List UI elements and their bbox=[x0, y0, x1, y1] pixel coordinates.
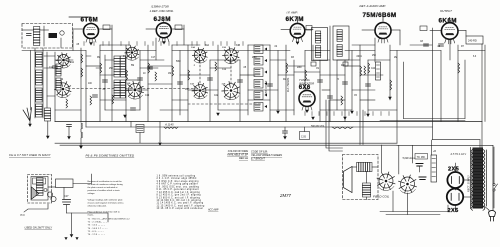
svg-text:2M77: 2M77 bbox=[279, 193, 292, 198]
wire: vertical runs, top band bbox=[46, 52, 48, 108]
grid cap leads bbox=[69, 17, 450, 22]
switch contact coil 1 bbox=[254, 45, 263, 54]
field coil bbox=[363, 183, 371, 197]
coil L3b ant secondary bbox=[56, 78, 61, 90]
svg-text:Plug condenser tested line shi: Plug condenser tested line shift to bbox=[88, 211, 121, 214]
svg-text:ACC AMP: ACC AMP bbox=[207, 209, 219, 212]
wire: rail y=118.5 right bbox=[404, 118, 466, 120]
svg-text:6 11 .05 C.P. generator ali: 6 11 .05 C.P. generator alignment bbox=[157, 188, 200, 191]
capacitor C21 (boxed) bbox=[300, 132, 310, 140]
power plug bbox=[489, 210, 496, 221]
svg-text:C8: C8 bbox=[420, 41, 424, 43]
ground g2 bbox=[216, 113, 220, 116]
dashed enclosure: 2M77 dial-light unit bbox=[28, 175, 52, 204]
cathode ground V2 bbox=[162, 41, 166, 44]
svg-text:OUTPUT: OUTPUT bbox=[440, 9, 452, 13]
pilot lamp circles bbox=[47, 192, 52, 197]
svg-text:.5: .5 bbox=[337, 79, 340, 81]
wire: drop x=160 bus to ground bus bbox=[159, 122, 161, 143]
switch contact coil 2 bbox=[254, 57, 263, 66]
svg-text:.02: .02 bbox=[274, 46, 278, 48]
svg-text:provision of rectifier which a: provision of rectifier which a starts bbox=[88, 189, 120, 192]
IF T2 secondary bbox=[337, 45, 342, 57]
ground under C21b bbox=[283, 136, 287, 139]
ground g4 bbox=[350, 111, 354, 114]
IF transformer T1 (can) bbox=[312, 28, 328, 61]
texture ticks upper band bbox=[84, 42, 243, 46]
band-switch wafer S1A bbox=[192, 48, 207, 64]
capacitor C21b bbox=[283, 131, 288, 133]
svg-text:+B: +B bbox=[433, 151, 436, 153]
ground under choke CH bbox=[46, 136, 50, 139]
resistor R22 bbox=[364, 66, 366, 75]
capacitor C11 bbox=[366, 84, 371, 86]
svg-text:T4 : 14.8 1.7 - -: T4 : 14.8 1.7 - - - - bbox=[88, 228, 108, 230]
svg-text:32A: 32A bbox=[222, 46, 226, 49]
dial unit top detail bbox=[33, 178, 46, 184]
capacitor C27 stack bbox=[63, 200, 71, 205]
P6 dial lamp block on bus bbox=[131, 122, 144, 144]
svg-text:chassis and negative terminals: chassis and negative terminals unless bbox=[88, 201, 124, 204]
wire: heater lines to transformer bbox=[380, 211, 448, 213]
oscillator coil L6 bbox=[114, 56, 120, 77]
IF transformer T2 (can) bbox=[333, 26, 349, 60]
dial unit inner box bbox=[31, 177, 48, 201]
svg-text:10: 10 bbox=[143, 73, 146, 75]
coil L2b ant secondary bbox=[56, 64, 61, 76]
texture ticks lower mid band bbox=[305, 112, 389, 116]
svg-text:& 7 BRIGHT: & 7 BRIGHT bbox=[251, 158, 265, 161]
resistor R18 diode load bbox=[376, 62, 381, 80]
svg-text:12 15 1400 K.C. mod pad I.F.: 12 15 1400 K.C. mod pad I.F. aligning bbox=[157, 205, 205, 207]
coupling condenser boxes near tubes bbox=[103, 25, 110, 30]
svg-text:T2 : 2.1 M,A - -: T2 : 2.1 M,A - - - - bbox=[88, 221, 108, 224]
svg-text:1 6 .05M antenna coil coup: 1 6 .05M antenna coil coupling bbox=[157, 175, 196, 178]
resistor R21 bbox=[341, 96, 343, 105]
resistor R15 bbox=[81, 132, 83, 138]
speaker wiring bbox=[352, 167, 378, 200]
svg-text:TO. PRI.: TO. PRI. bbox=[417, 157, 426, 159]
tube V5 6K6M (output) bbox=[441, 20, 458, 44]
dial lamp cone bbox=[32, 187, 40, 199]
wire: rail y=66 segments (texture) bbox=[86, 65, 100, 67]
svg-text:6.3: 6.3 bbox=[473, 56, 477, 58]
wire: rail y=60 segments bbox=[55, 59, 73, 61]
svg-text:500,000 VOL.: 500,000 VOL. bbox=[311, 126, 326, 128]
ground g7 bbox=[343, 117, 347, 120]
svg-text:8 12 455 K.C. gen 2nd I.F.: 8 12 455 K.C. gen 2nd I.F. aligning bbox=[157, 195, 202, 197]
socket: osc trimmer bbox=[125, 46, 139, 61]
svg-text:C12: C12 bbox=[222, 69, 227, 71]
wire: power section inner links bbox=[380, 120, 465, 122]
svg-text:CH.& C7 NOT USED IN MANY: CH.& C7 NOT USED IN MANY bbox=[9, 153, 52, 157]
svg-text:/1.5 TO 2 1/2 V: /1.5 TO 2 1/2 V bbox=[450, 154, 467, 156]
svg-text:T3 : 12.6 - - -: T3 : 12.6 - - - - - bbox=[88, 225, 106, 227]
svg-text:C17: C17 bbox=[151, 57, 156, 59]
svg-text:C19: C19 bbox=[145, 95, 150, 97]
wire: output lead pair down bbox=[360, 110, 363, 145]
svg-text:6X6: 6X6 bbox=[299, 85, 311, 91]
svg-text:240 RD: 240 RD bbox=[468, 39, 477, 43]
capacitor C4 bbox=[178, 82, 183, 84]
svg-text:.05: .05 bbox=[243, 67, 247, 69]
resistor R3 bbox=[100, 63, 102, 73]
svg-text:C27: C27 bbox=[64, 195, 69, 198]
svg-text:/1398A/-2T3/8: /1398A/-2T3/8 bbox=[150, 5, 169, 9]
resistor R1 bbox=[81, 54, 83, 63]
wire: left column verticals bbox=[34, 48, 36, 118]
wire: double ground bus y=143.2/145 bbox=[55, 142, 397, 144]
wire: dashed gang linkage y=90 bbox=[68, 88, 196, 90]
speaker cone bbox=[344, 167, 353, 193]
band-switch wafer S1D bbox=[222, 82, 240, 100]
resistor R9 bbox=[305, 70, 307, 80]
wire: rail y=45 segments bbox=[100, 44, 130, 46]
svg-text:R11: R11 bbox=[70, 62, 75, 64]
socket: tuning gang trimmer 3-4A bbox=[56, 53, 71, 68]
svg-text:C9: C9 bbox=[316, 68, 320, 70]
svg-text:32B: 32B bbox=[222, 84, 226, 86]
svg-text:75M/6B6M: 75M/6B6M bbox=[363, 12, 397, 19]
capacitor C8 bbox=[268, 84, 273, 86]
resistor R24 bbox=[215, 62, 217, 71]
resistor R20 bleeder (power) bbox=[431, 155, 437, 182]
switch contact coil 5 bbox=[254, 91, 263, 100]
ground g1 bbox=[123, 115, 127, 118]
svg-text:C24: C24 bbox=[371, 68, 376, 70]
svg-text:.25: .25 bbox=[102, 89, 106, 91]
capacitor C18 bbox=[148, 67, 153, 69]
svg-text:R3: R3 bbox=[291, 57, 295, 59]
svg-text:set drain of condenser voltage: set drain of condenser voltage during bbox=[88, 183, 124, 186]
wire: bus y=127 bbox=[86, 126, 433, 128]
dashed enclosure: antenna coil unit (top-left) bbox=[22, 24, 73, 49]
svg-text:5M: 5M bbox=[131, 65, 134, 67]
svg-text:50M: 50M bbox=[176, 61, 181, 63]
wire: rail y=80/68 extra segments bbox=[126, 79, 140, 81]
wire: vertical from bus down w/resistors x=81 bbox=[80, 48, 82, 122]
ground g8 bbox=[366, 114, 370, 117]
svg-text:2X5: 2X5 bbox=[448, 208, 459, 214]
svg-text:11 14 1400 K.C. osc pad I.F.: 11 14 1400 K.C. osc pad I.F. aligning bbox=[157, 203, 204, 205]
svg-text:.1: .1 bbox=[193, 65, 196, 67]
coil L4 band coil bbox=[36, 88, 42, 102]
resistor R8 bbox=[286, 63, 288, 73]
svg-text:6K7M: 6K7M bbox=[286, 16, 304, 23]
parts inside antenna dashed box bbox=[49, 33, 58, 38]
capacitor C1 bbox=[53, 66, 58, 68]
resistor R6 bbox=[172, 66, 174, 76]
coil L3 RF secondary bbox=[36, 70, 42, 85]
extra left-side segments bbox=[44, 56, 100, 96]
svg-text:USED ON 2M77 ONLY: USED ON 2M77 ONLY bbox=[25, 226, 53, 230]
IF T2 primary bbox=[337, 30, 342, 42]
capacitor C3 bbox=[138, 78, 143, 80]
ground g6 bbox=[311, 117, 315, 120]
svg-text:2X5: 2X5 bbox=[448, 166, 459, 172]
wire: power box boundary bbox=[397, 145, 493, 210]
tube V3 6K7M (IF amp) bbox=[290, 21, 305, 43]
capacitor C17 bbox=[93, 95, 98, 97]
svg-text:P6 & P6 SOMETIMES OMITTED: P6 & P6 SOMETIMES OMITTED bbox=[86, 154, 135, 158]
output transformer T3 bbox=[357, 163, 373, 172]
svg-text:Because of rectification in ci: Because of rectification in circuit the bbox=[88, 180, 123, 183]
resistor R23 bbox=[112, 95, 114, 104]
svg-text:otherwise indicated.: otherwise indicated. bbox=[88, 204, 107, 207]
capacitor C15 bbox=[328, 96, 333, 98]
svg-text:C22: C22 bbox=[214, 95, 219, 97]
antenna coil L1 (in shield) bbox=[34, 27, 40, 46]
svg-text:9 13 600 K.C. ant coil I.F.: 9 13 600 K.C. ant coil I.F. aligning bbox=[157, 196, 201, 199]
svg-text:FIELD COIL: FIELD COIL bbox=[373, 195, 390, 199]
tube V2 6J8M (converter) bbox=[156, 20, 171, 42]
resistor R26 bbox=[66, 99, 68, 108]
capacitor C16 bbox=[131, 108, 136, 110]
resistor R13 bbox=[458, 63, 460, 73]
svg-text:T6 : 17.8 - - -: T6 : 17.8 - - - - - bbox=[88, 234, 106, 236]
tube V6 6X6 (tuning indicator) bbox=[299, 88, 315, 111]
svg-text:2 6 .1 C.P. trimmer align: 2 6 .1 C.P. trimmer align 455KC bbox=[157, 177, 197, 180]
svg-text:C4: C4 bbox=[58, 56, 62, 58]
svg-text:5,000 ohms: 5,000 ohms bbox=[403, 157, 416, 160]
capacitor C23 electrolytic bbox=[419, 177, 426, 180]
capacitor C5 bbox=[208, 78, 213, 80]
socket: tuning gang trimmer 3-4B bbox=[55, 81, 71, 98]
wire: rail y=75 segments bbox=[100, 74, 118, 76]
svg-text:34B: 34B bbox=[236, 45, 241, 47]
svg-text:13 16 .05 C.P. output with c: 13 16 .05 C.P. output with condenser bbox=[157, 207, 204, 210]
ground under R15 bbox=[79, 146, 83, 149]
resistor R4 bbox=[126, 70, 128, 80]
svg-text:the plate current as indicated: the plate current as indicated at bbox=[88, 186, 118, 189]
coil L5 band coil bbox=[36, 104, 42, 117]
svg-text:.02: .02 bbox=[60, 79, 64, 81]
svg-text:2M: 2M bbox=[394, 57, 397, 59]
tube V8 2X5 rectifier (lower) bbox=[447, 189, 463, 205]
svg-text:C.05: C.05 bbox=[301, 136, 307, 138]
cathode ground V3 bbox=[296, 42, 300, 45]
capacitor C9 bbox=[318, 80, 323, 82]
IF T1 primary bbox=[316, 31, 321, 43]
tube V7 2X5 rectifier (upper) bbox=[447, 170, 463, 190]
antenna symbol bbox=[23, 108, 32, 126]
tube V1 6T6M (RF amp) bbox=[84, 21, 99, 43]
resistor R7 bbox=[188, 70, 190, 80]
svg-text:250: 250 bbox=[372, 55, 377, 57]
resistor R11 bbox=[368, 63, 370, 73]
svg-text:4 8 ANT C.P. tuning gang p: 4 8 ANT C.P. tuning gang padder bbox=[157, 183, 199, 186]
svg-text:R.F. TRANS.: R.F. TRANS. bbox=[286, 77, 290, 92]
svg-text:3 8 OSC C.P. inter-stage a: 3 8 OSC C.P. inter-stage aligning bbox=[157, 180, 200, 183]
capacitor C6 bbox=[238, 80, 243, 82]
svg-text:5 9 .0001 OSC sect. osc. p: 5 9 .0001 OSC sect. osc. padding bbox=[157, 185, 200, 188]
wire: 6X6 enclosure bbox=[294, 71, 320, 73]
dashed enclosure: speaker assembly bbox=[343, 155, 379, 200]
svg-text:30A: 30A bbox=[205, 44, 210, 47]
coil L2 RF primary bbox=[36, 52, 42, 67]
svg-text:T5 : 6.3 - - -: T5 : 6.3 - - - - - bbox=[88, 231, 104, 233]
svg-text:Voltage readings with voltmete: Voltage readings with voltmeter plate bbox=[88, 198, 124, 201]
switch contact coil 6 bbox=[254, 103, 263, 112]
tube V4 75M/6B6M (det-AF) bbox=[375, 20, 391, 43]
wire: top grid rail segments y=50.5 bbox=[22, 50, 86, 52]
resistor R14 bbox=[81, 123, 83, 129]
svg-text:30A: 30A bbox=[191, 46, 195, 49]
svg-text:INDICATOR: INDICATOR bbox=[299, 81, 314, 85]
resistor R10 bbox=[360, 66, 362, 76]
wire: speaker lead pair down bbox=[326, 100, 343, 151]
ground: dial unit bbox=[70, 234, 74, 237]
volume control R17 bbox=[332, 127, 353, 129]
capacitor C2 bbox=[103, 80, 108, 82]
choke CH bbox=[45, 108, 51, 121]
wire: transformer right lead to plug bbox=[484, 206, 489, 212]
svg-text:voltage.: voltage. bbox=[88, 192, 96, 195]
resistor block right of dial unit bbox=[56, 179, 74, 188]
wire stub: x81 lower bbox=[80, 129, 82, 132]
wire: dashed linkage verticals bbox=[199, 61, 201, 84]
ground g5 bbox=[388, 97, 392, 100]
oscillator coil L7b bbox=[120, 80, 125, 98]
svg-text:I.F. AMP.: I.F. AMP. bbox=[287, 11, 298, 15]
svg-text:1.DET.-OSC.MOD.: 1.DET.-OSC.MOD. bbox=[150, 9, 175, 13]
svg-text:1M: 1M bbox=[168, 73, 171, 75]
switch on mains lead bbox=[493, 183, 495, 185]
svg-text:6T6M: 6T6M bbox=[81, 17, 99, 24]
resistor R27 bbox=[155, 72, 157, 81]
capacitor C12 bbox=[424, 44, 429, 46]
resistor R12 bbox=[390, 80, 392, 90]
dial unit coil bbox=[37, 178, 44, 196]
stage coupling wires at tube level bbox=[73, 25, 466, 51]
svg-text:20M: 20M bbox=[297, 67, 302, 69]
svg-text:30A: 30A bbox=[190, 83, 194, 86]
cathode ground V1 bbox=[89, 42, 93, 45]
trimmer rects on IF cans bbox=[311, 62, 316, 66]
band-switch wafer S1B bbox=[223, 47, 239, 64]
ground under C7 bbox=[67, 136, 71, 139]
capacitor C14 bbox=[439, 44, 444, 46]
resistor R16 on bus (A 1145) bbox=[164, 127, 178, 129]
wire: B+ rail y=121.5 bbox=[55, 121, 482, 123]
svg-text:.05: .05 bbox=[76, 44, 80, 46]
svg-text:6J8M: 6J8M bbox=[154, 16, 171, 23]
resistor R2 bbox=[81, 68, 83, 77]
band-switch wafer S1C bbox=[192, 83, 208, 99]
switch contact coil 3 bbox=[254, 68, 263, 77]
wire: rail y=90 segments bbox=[126, 89, 148, 91]
switch contact coil 4 bbox=[254, 80, 263, 89]
wire: rail y=100 segments (texture) bbox=[100, 99, 126, 101]
wire: dashed band-switch linkage y=104 bbox=[188, 103, 262, 105]
capacitor C22 electrolytic bbox=[416, 164, 423, 167]
svg-text:7 12 455 K.C. pad 1st I.F.: 7 12 455 K.C. pad 1st I.F. aligning bbox=[157, 191, 201, 194]
svg-text:100: 100 bbox=[88, 83, 93, 85]
svg-text:.0001: .0001 bbox=[356, 56, 362, 58]
svg-text:P.O: P.O bbox=[21, 213, 25, 217]
ground arrow x160 bbox=[158, 143, 162, 146]
wire: rail y=110 segments bbox=[55, 109, 81, 111]
socket: speaker plug (bottom view) bbox=[377, 172, 395, 191]
svg-text:RED LE: RED LE bbox=[239, 157, 248, 160]
svg-text:10 14 600 K.C. RF coil I.F.: 10 14 600 K.C. RF coil I.F. aligning bbox=[157, 200, 202, 202]
svg-text:mains.: mains. bbox=[88, 215, 95, 217]
svg-text:R7: R7 bbox=[461, 46, 465, 48]
svg-text:A 1145: A 1145 bbox=[164, 122, 174, 126]
wire: mains lead right edge bbox=[493, 147, 495, 183]
socket: power socket (bottom view) bbox=[399, 175, 417, 194]
resistor R25 bbox=[90, 96, 92, 105]
capacitor C10 bbox=[343, 82, 348, 84]
ground V6 bbox=[305, 110, 309, 113]
svg-text:25M: 25M bbox=[252, 57, 257, 59]
svg-text:RECT. SUPPLY: RECT. SUPPLY bbox=[468, 175, 471, 192]
oscillator coil L7 bbox=[114, 80, 120, 98]
ground g3 bbox=[276, 111, 280, 114]
resistor R5 bbox=[148, 63, 150, 73]
oscillator coil L6b bbox=[120, 56, 125, 77]
svg-text:6K6M: 6K6M bbox=[439, 17, 457, 24]
dial unit wiring bbox=[24, 174, 108, 234]
svg-text:T1 : 850 O.L.-ANT GRID: T1 : 850 O.L.-ANT GRID ALIGNING 4.2 bbox=[88, 218, 131, 221]
svg-text:C5: C5 bbox=[354, 95, 358, 97]
capacitor C7 bbox=[67, 125, 72, 127]
power transformer T4 winding (dense) bbox=[471, 148, 487, 211]
IF T1 secondary bbox=[316, 46, 321, 58]
svg-text:DET. & AUDIO AMP.: DET. & AUDIO AMP. bbox=[360, 4, 386, 8]
svg-text:34B: 34B bbox=[127, 83, 131, 85]
socket: padder 34B bbox=[126, 81, 143, 99]
svg-text:250: 250 bbox=[109, 68, 114, 70]
resistor R19 240ohm box top-right bbox=[466, 36, 483, 44]
